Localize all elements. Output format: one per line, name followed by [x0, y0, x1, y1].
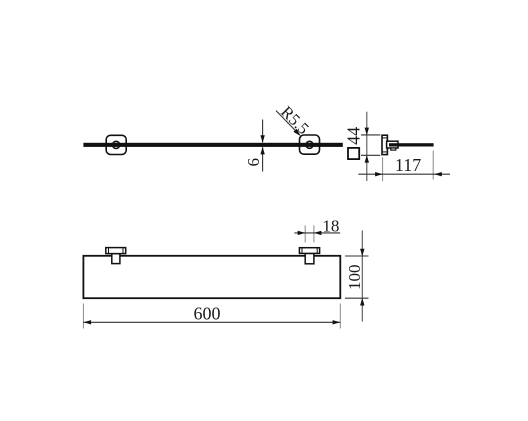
svg-text:6: 6 — [244, 158, 263, 167]
arrowhead down — [360, 249, 364, 257]
dimension 117 (bracket depth) — [358, 151, 450, 182]
radius leader R5.5 — [276, 102, 313, 138]
dimension square-44 (bracket plate size) — [344, 112, 381, 181]
arrowhead left — [84, 320, 92, 324]
svg-text:600: 600 — [194, 303, 221, 323]
wall plate, side view — [382, 135, 387, 154]
leader line — [276, 111, 299, 135]
arrowhead up — [260, 147, 264, 155]
flange corner mark right — [316, 248, 318, 254]
dimension line — [358, 173, 450, 175]
extension line left — [82, 304, 84, 329]
flange corner mark left — [301, 248, 303, 254]
left bracket screw hole — [113, 141, 120, 148]
dimension 6 (glass thickness) — [244, 120, 265, 172]
square symbol — [348, 148, 359, 159]
right bracket stem — [305, 253, 314, 263]
arrowhead right — [333, 320, 341, 324]
svg-text:117: 117 — [395, 155, 421, 175]
arrowhead down — [365, 128, 369, 136]
right mounting bracket, front elevation — [300, 135, 320, 154]
dimension line — [294, 232, 340, 234]
right bracket screw hole — [306, 141, 313, 148]
extension line top — [361, 134, 380, 136]
right mounting bracket, plan view — [299, 248, 319, 264]
extension line right — [432, 151, 434, 180]
plate top edge mark — [382, 137, 387, 139]
dimension line — [83, 321, 340, 323]
flange corner mark left — [108, 248, 110, 254]
flange corner mark right — [122, 248, 124, 254]
glass clamp, side view — [387, 141, 398, 150]
extension line top — [345, 255, 369, 257]
svg-text:44: 44 — [344, 127, 364, 145]
extension line bottom — [345, 297, 369, 299]
extension line left — [304, 225, 306, 242]
dimension line vertical — [361, 231, 363, 322]
dimension line vertical — [366, 112, 368, 181]
plate bottom edge mark — [382, 151, 387, 153]
dimension line above — [262, 120, 264, 143]
glass shelf outline, plan view — [83, 256, 340, 298]
arrowhead right — [298, 231, 306, 235]
arrowhead left — [434, 172, 442, 176]
extension line right — [339, 304, 341, 329]
leader arrowhead — [293, 129, 300, 136]
left bracket stem — [112, 254, 120, 264]
glass shelf edge, side view — [389, 143, 434, 146]
left mounting bracket, plan view — [106, 248, 126, 264]
left mounting bracket, front elevation — [106, 135, 126, 154]
extension line right — [313, 225, 315, 242]
clamp set screw — [391, 148, 396, 150]
dimension 100 (shelf depth) — [345, 231, 369, 322]
svg-text:18: 18 — [322, 216, 339, 235]
svg-text:100: 100 — [345, 264, 364, 290]
arrowhead up — [365, 155, 369, 163]
arrowhead right — [375, 172, 383, 176]
dimension line below — [262, 147, 264, 171]
extension line bottom — [361, 154, 380, 156]
left bracket wall flange — [106, 248, 126, 254]
dimension 18 (bracket stem width) — [294, 216, 340, 242]
right bracket wall flange — [299, 248, 319, 254]
extension line left — [382, 157, 384, 181]
glass shelf edge, front elevation — [83, 143, 342, 147]
arrowhead down — [260, 135, 264, 143]
arrowhead left — [314, 231, 322, 235]
arrowhead up — [360, 298, 364, 306]
dimension 600 (shelf length) — [83, 303, 340, 328]
